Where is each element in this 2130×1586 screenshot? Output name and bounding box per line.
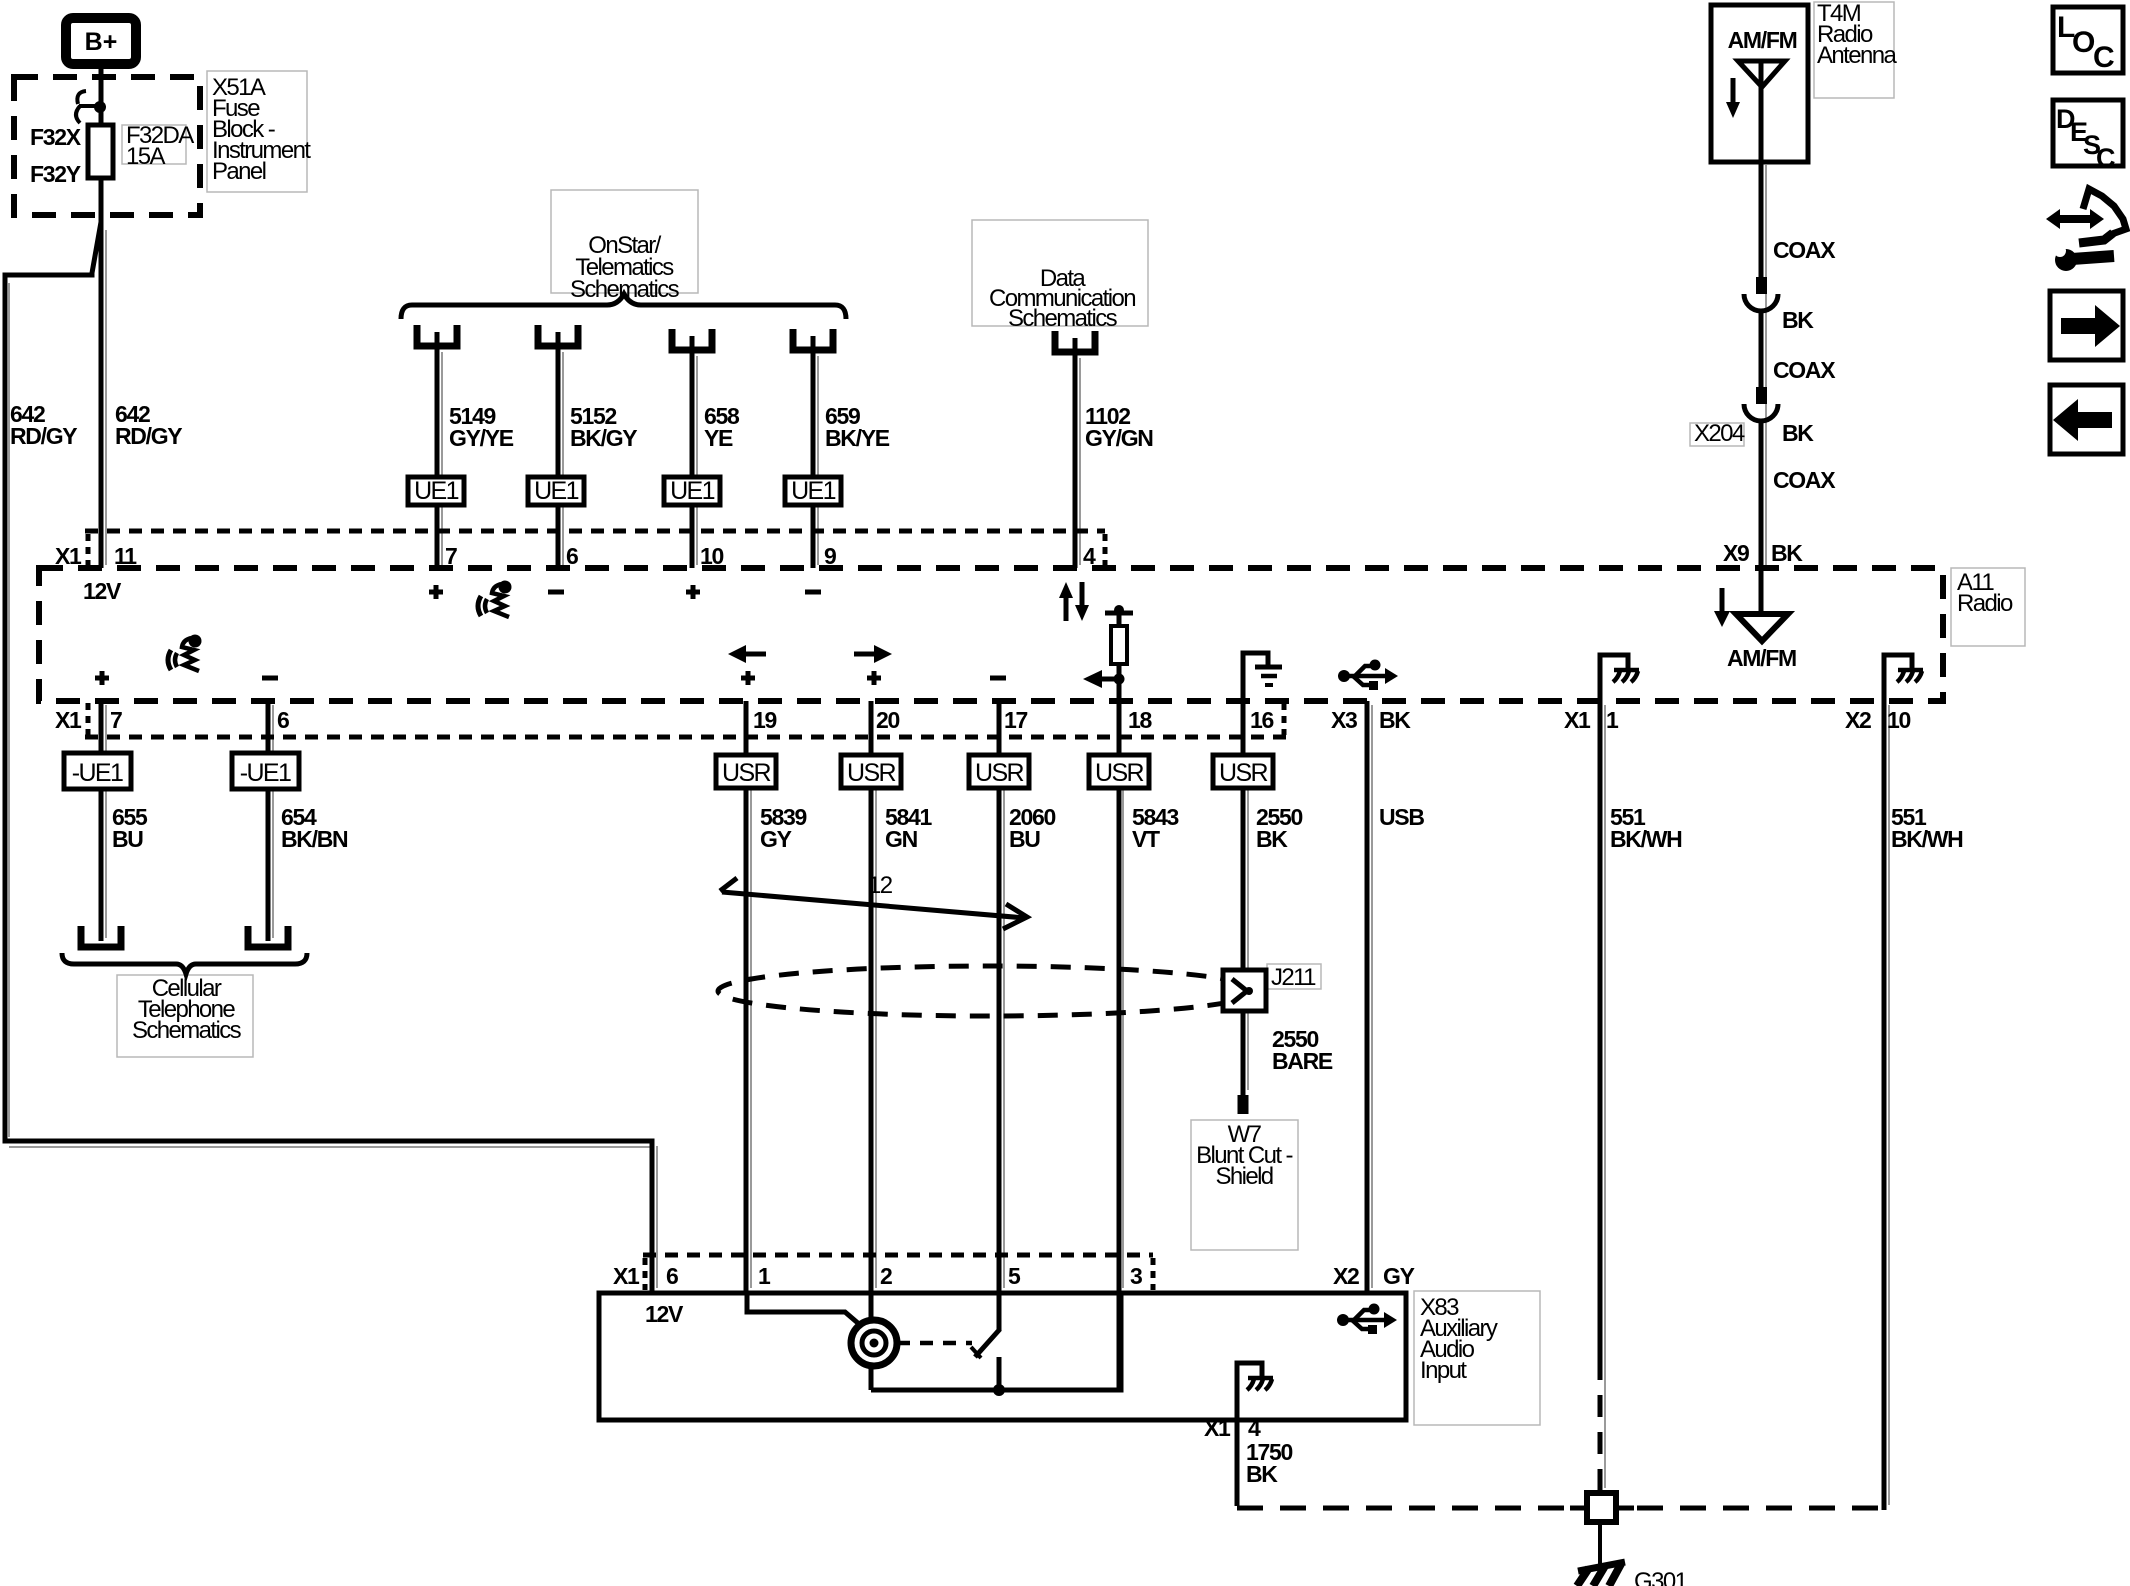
svg-text:J211: J211 bbox=[1271, 964, 1316, 991]
svg-text:X2: X2 bbox=[1845, 707, 1871, 733]
battery feed B+ bbox=[66, 18, 136, 64]
coax connector 1 bbox=[1756, 277, 1767, 294]
splice J211 bbox=[1223, 970, 1266, 1011]
svg-text:BK: BK bbox=[1246, 1461, 1278, 1487]
svg-text:20: 20 bbox=[876, 707, 899, 733]
svg-text:X3: X3 bbox=[1331, 707, 1357, 733]
svg-text:X1: X1 bbox=[1564, 707, 1591, 733]
svg-text:RD/GY: RD/GY bbox=[115, 423, 182, 449]
forward arrow icon bbox=[2050, 291, 2123, 360]
svg-text:GY/YE: GY/YE bbox=[449, 425, 514, 451]
callout box X51A fuse block label bbox=[207, 71, 307, 192]
svg-text:USR: USR bbox=[975, 759, 1024, 787]
connector cup 5 bbox=[1055, 331, 1095, 352]
svg-text:Schematics: Schematics bbox=[132, 1017, 242, 1044]
svg-text:USR: USR bbox=[722, 759, 771, 787]
svg-text:BK: BK bbox=[1256, 826, 1288, 852]
svg-text:F32X: F32X bbox=[30, 124, 82, 150]
takeout USR box 2 bbox=[841, 755, 901, 788]
fuse block dashed box X51A bbox=[14, 77, 200, 215]
polarity symbols top row bbox=[429, 585, 443, 599]
callout box T4M label bbox=[1814, 2, 1894, 98]
callout box W7 Blunt Cut label bbox=[1191, 1120, 1298, 1250]
svg-text:UE1: UE1 bbox=[670, 477, 715, 505]
ground splice box bbox=[1587, 1493, 1616, 1522]
svg-text:UE1: UE1 bbox=[791, 477, 836, 505]
svg-text:Radio: Radio bbox=[1957, 590, 2013, 617]
svg-text:X1: X1 bbox=[613, 1263, 640, 1289]
takeout USR box 1 bbox=[716, 755, 776, 788]
svg-text:BARE: BARE bbox=[1272, 1048, 1333, 1074]
ECU A11 Radio dashed outline bbox=[39, 568, 1943, 701]
svg-text:BK/WH: BK/WH bbox=[1891, 826, 1963, 852]
svg-text:Panel: Panel bbox=[212, 158, 266, 185]
chassis ground radio X2 pin 10 bbox=[1884, 655, 1912, 701]
wire 654 BK/BN bbox=[266, 701, 271, 941]
svg-text:YE: YE bbox=[704, 425, 733, 451]
svg-text:BK: BK bbox=[1782, 307, 1814, 333]
svg-text:F32Y: F32Y bbox=[30, 161, 81, 187]
junction node in fuse block bbox=[94, 101, 106, 113]
svg-text:RD/GY: RD/GY bbox=[10, 423, 77, 449]
svg-text:7: 7 bbox=[110, 707, 122, 733]
svg-text:UE1: UE1 bbox=[414, 477, 459, 505]
svg-text:-UE1: -UE1 bbox=[72, 759, 123, 787]
svg-text:BK: BK bbox=[1771, 540, 1803, 566]
svg-text:6: 6 bbox=[277, 707, 289, 733]
callout box X204 label bbox=[1690, 423, 1744, 446]
callout box Cellular Telephone label bbox=[117, 975, 253, 1057]
takeout UE1 box 4 bbox=[785, 477, 841, 505]
svg-text:2: 2 bbox=[880, 1263, 892, 1289]
aux box X83 bbox=[599, 1293, 1406, 1420]
svg-text:Antenna: Antenna bbox=[1817, 42, 1897, 69]
Data Comm wire 1102 bbox=[1073, 338, 1078, 568]
brace over OnStar wires bbox=[401, 294, 846, 319]
ground G301 bbox=[1578, 1562, 1625, 1571]
svg-text:USR: USR bbox=[847, 759, 896, 787]
svg-text:C: C bbox=[2093, 41, 2115, 74]
chassis ground radio X1 pin 1 bbox=[1600, 655, 1628, 701]
direction arrow pin 19 bbox=[744, 652, 766, 657]
svg-text:X204: X204 bbox=[1694, 420, 1745, 447]
svg-text:USR: USR bbox=[1219, 759, 1268, 787]
callout box Data Communication label bbox=[972, 220, 1148, 326]
back arrow icon bbox=[2050, 385, 2123, 454]
svg-text:BK/BN: BK/BN bbox=[281, 826, 348, 852]
takeout USR box 4 bbox=[1089, 755, 1149, 788]
takeout USR box 5 bbox=[1213, 755, 1273, 788]
svg-text:B+: B+ bbox=[85, 28, 118, 56]
svg-text:COAX: COAX bbox=[1773, 237, 1836, 263]
USB symbol X83 bbox=[1337, 1304, 1397, 1335]
wire 655 BU bbox=[99, 701, 104, 941]
chassis ground X83 X1 pin 4 bbox=[1237, 1363, 1262, 1420]
svg-text:UE1: UE1 bbox=[534, 477, 579, 505]
polarity symbols bottom row bbox=[95, 671, 109, 685]
shadow lines bbox=[105, 230, 107, 565]
svg-text:3: 3 bbox=[1130, 1263, 1142, 1289]
wire B+ down to radio pin 11 bbox=[99, 64, 104, 568]
svg-text:AM/FM: AM/FM bbox=[1728, 27, 1797, 53]
microphone icon top bbox=[478, 581, 512, 618]
svg-text:BK/YE: BK/YE bbox=[825, 425, 890, 451]
blunt cut stub W7 bbox=[1238, 1095, 1249, 1114]
svg-text:BK/GY: BK/GY bbox=[570, 425, 637, 451]
svg-text:4: 4 bbox=[1248, 1415, 1261, 1441]
takeout UE1 box 2 bbox=[528, 477, 584, 505]
radio X1 top pin row bbox=[85, 529, 1105, 534]
svg-text:COAX: COAX bbox=[1773, 357, 1836, 383]
fuse clip hook bbox=[76, 91, 97, 123]
wire to G301 bbox=[1598, 1524, 1602, 1568]
repair route icon bbox=[2046, 189, 2126, 271]
connector cup 1 bbox=[417, 325, 457, 346]
OnStar wire 5149 bbox=[435, 332, 440, 568]
svg-text:BK: BK bbox=[1379, 707, 1411, 733]
svg-text:C: C bbox=[2096, 143, 2116, 173]
svg-text:X1: X1 bbox=[1204, 1415, 1231, 1441]
wire branch to left rail and aux box bbox=[5, 222, 652, 1293]
svg-text:AM/FM: AM/FM bbox=[1727, 645, 1796, 671]
radio bottom pin row bbox=[85, 735, 1287, 740]
svg-text:X9: X9 bbox=[1723, 540, 1749, 566]
takeout UE1 box 3 bbox=[664, 477, 720, 505]
svg-text:-UE1: -UE1 bbox=[240, 759, 291, 787]
antenna T4M box bbox=[1711, 5, 1808, 162]
detect switch bbox=[975, 1329, 1000, 1357]
microphone icon bottom bbox=[168, 635, 202, 672]
callout box F32DA label bbox=[122, 125, 186, 164]
callout box X83 label bbox=[1414, 1291, 1540, 1425]
connector cup 4 bbox=[793, 329, 833, 350]
svg-text:Shield: Shield bbox=[1215, 1163, 1272, 1190]
svg-text:17: 17 bbox=[1004, 707, 1027, 733]
takeout USR box 3 bbox=[969, 755, 1029, 788]
svg-text:12V: 12V bbox=[645, 1301, 684, 1327]
wire 5839 GY bbox=[744, 701, 749, 1293]
signal ground pin 16 bbox=[1243, 653, 1268, 700]
OnStar wire 659 bbox=[811, 336, 816, 568]
svg-text:BU: BU bbox=[1009, 826, 1040, 852]
svg-text:BU: BU bbox=[112, 826, 143, 852]
volume control resistor pin 18 bbox=[1105, 611, 1133, 616]
svg-text:O: O bbox=[2072, 26, 2095, 59]
svg-text:15A: 15A bbox=[126, 143, 165, 170]
brace cellular telephone bbox=[62, 953, 307, 974]
twisted pair marker 12 bbox=[722, 892, 1025, 918]
svg-text:BK/WH: BK/WH bbox=[1610, 826, 1682, 852]
svg-text:6: 6 bbox=[666, 1263, 678, 1289]
svg-text:USB: USB bbox=[1379, 804, 1424, 830]
coax wire bbox=[1759, 162, 1764, 277]
data flow up/down arrows pin 4 bbox=[1064, 596, 1069, 621]
cellular telephone cups bbox=[81, 926, 121, 947]
wire 5843 VT bbox=[1117, 701, 1122, 1390]
callout box A11 Radio label bbox=[1951, 568, 2025, 646]
svg-text:16: 16 bbox=[1250, 707, 1273, 733]
LOC icon bbox=[2053, 7, 2123, 73]
fuse F32DA 15A bbox=[88, 125, 113, 178]
svg-text:X1: X1 bbox=[55, 707, 82, 733]
svg-text:Input: Input bbox=[1420, 1357, 1467, 1384]
svg-text:18: 18 bbox=[1128, 707, 1152, 733]
svg-text:1: 1 bbox=[758, 1263, 771, 1289]
USB symbol radio X3 bbox=[1338, 660, 1398, 691]
svg-text:VT: VT bbox=[1132, 826, 1160, 852]
takeout -UE1 box 2 bbox=[232, 753, 299, 789]
connector cup 2 bbox=[538, 325, 578, 346]
callout box OnStar label bbox=[551, 190, 698, 293]
svg-text:12: 12 bbox=[868, 872, 893, 899]
svg-text:COAX: COAX bbox=[1773, 467, 1836, 493]
svg-text:5: 5 bbox=[1008, 1263, 1021, 1289]
OnStar wire 658 bbox=[690, 336, 695, 568]
takeout UE1 box 1 bbox=[408, 477, 464, 505]
svg-text:Schematics: Schematics bbox=[1008, 305, 1118, 332]
DESC icon bbox=[2053, 100, 2123, 166]
svg-text:12V: 12V bbox=[83, 578, 122, 604]
svg-text:GY: GY bbox=[1383, 1263, 1415, 1289]
OnStar wire 5152 bbox=[556, 332, 561, 568]
wire 551 BK/WH right bbox=[1882, 701, 1887, 1510]
svg-text:19: 19 bbox=[753, 707, 776, 733]
svg-text:G301: G301 bbox=[1634, 1568, 1688, 1586]
svg-text:GN: GN bbox=[885, 826, 918, 852]
shield ellipse bbox=[718, 966, 1258, 1016]
svg-text:GY: GY bbox=[760, 826, 792, 852]
wire 2550 BK bbox=[1241, 701, 1246, 972]
takeout -UE1 box 1 bbox=[64, 753, 131, 789]
wire 1750 BK bbox=[1235, 1420, 1240, 1506]
antenna symbol in radio bbox=[1759, 568, 1764, 613]
wire 2060 BU bbox=[997, 701, 1002, 1330]
wire 551 BK/WH left bbox=[1598, 701, 1603, 1358]
audio jack bbox=[851, 1320, 897, 1366]
svg-text:X2: X2 bbox=[1333, 1263, 1359, 1289]
coax connector X204 bbox=[1756, 387, 1767, 404]
svg-text:1: 1 bbox=[1606, 707, 1619, 733]
svg-text:USR: USR bbox=[1095, 759, 1144, 787]
wire 2550 BARE below J211 bbox=[1241, 1011, 1246, 1095]
connector cup 3 bbox=[672, 329, 712, 350]
wire USB bbox=[1365, 701, 1370, 1293]
aux jack wiring bbox=[747, 1293, 866, 1330]
X83 pin row bbox=[643, 1253, 1153, 1258]
svg-text:BK: BK bbox=[1782, 420, 1814, 446]
svg-text:10: 10 bbox=[1887, 707, 1910, 733]
svg-text:GY/GN: GY/GN bbox=[1085, 425, 1153, 451]
wire 5841 GN bbox=[869, 701, 874, 1390]
callout box J211 label bbox=[1267, 964, 1321, 989]
direction arrow pin 20 bbox=[854, 652, 876, 657]
bus to pin 3 bbox=[871, 1293, 1121, 1390]
